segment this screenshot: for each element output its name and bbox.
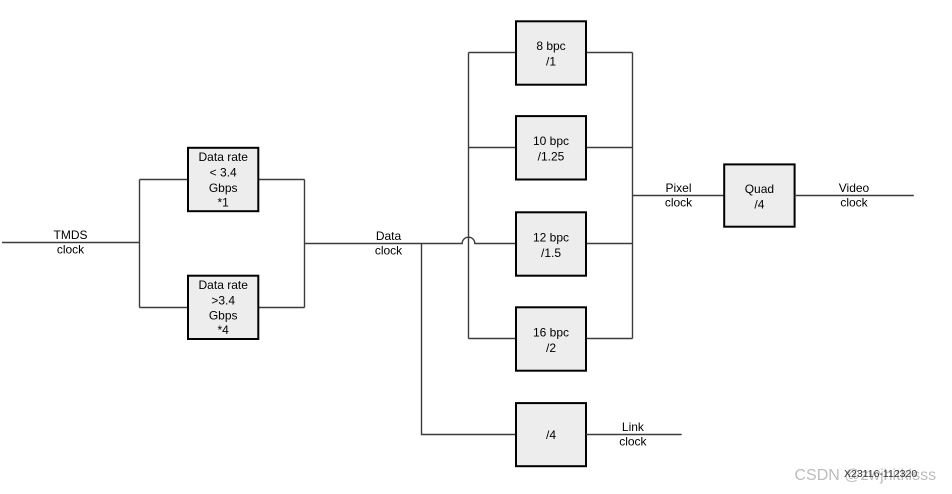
- svg-text:Video: Video: [839, 181, 870, 195]
- wire drop to /4 divider: [422, 244, 517, 435]
- wire data clock main with hop over bpc vertical: [305, 237, 517, 243]
- svg-text:8 bpc: 8 bpc: [536, 39, 565, 53]
- wire stub to 10bpc left: [469, 147, 517, 149]
- box /4 link divider: [516, 403, 586, 466]
- svg-text:clock: clock: [57, 242, 85, 256]
- box Data rate > 3.4 Gbps *4: [188, 276, 258, 339]
- svg-text:Data rate: Data rate: [199, 278, 249, 292]
- svg-text:16 bpc: 16 bpc: [533, 325, 569, 339]
- wire stub from 8bpc right: [586, 52, 633, 54]
- wire stub to R1 box left: [140, 179, 189, 181]
- wire bpc branch left vertical: [468, 53, 470, 339]
- svg-text:*1: *1: [218, 195, 230, 209]
- wire left branch right vertical: [304, 180, 306, 308]
- box Quad /4: [724, 164, 794, 226]
- svg-text:/1: /1: [546, 55, 556, 69]
- box Data rate < 3.4 Gbps *1: [188, 148, 258, 211]
- svg-text:>3.4: >3.4: [211, 293, 235, 307]
- wire stub from 16bpc right: [586, 338, 633, 340]
- svg-text:/1.25: /1.25: [538, 150, 565, 164]
- svg-text:clock: clock: [375, 243, 403, 257]
- svg-text:Quad: Quad: [745, 182, 774, 196]
- node Pixel clock label: [665, 181, 693, 210]
- svg-text:TMDS: TMDS: [54, 228, 88, 242]
- svg-text:X23116-112320: X23116-112320: [844, 468, 917, 480]
- svg-text:clock: clock: [840, 195, 868, 209]
- wire pixel clock: [633, 195, 725, 197]
- wire stub from 10bpc right: [586, 147, 633, 149]
- svg-text:Data: Data: [376, 229, 402, 243]
- node Video clock label: [839, 181, 870, 210]
- svg-text:12 bpc: 12 bpc: [533, 230, 569, 244]
- box 10 bpc /1.25: [516, 116, 586, 179]
- svg-text:Data rate: Data rate: [199, 150, 249, 164]
- wire stub from 12bpc right: [586, 243, 633, 245]
- wire stub from R1 box right: [258, 179, 304, 181]
- svg-text:Gbps: Gbps: [209, 181, 238, 195]
- svg-text:Link: Link: [622, 420, 645, 434]
- wire TMDS input: [2, 242, 140, 244]
- svg-text:/4: /4: [546, 428, 556, 442]
- svg-text:/4: /4: [754, 198, 764, 212]
- node TMDS clock label: [54, 228, 88, 256]
- svg-text:clock: clock: [619, 434, 647, 448]
- svg-text:/1.5: /1.5: [541, 246, 561, 260]
- box 12 bpc /1.5: [516, 212, 586, 275]
- wire video clock: [795, 195, 914, 197]
- wire stub to R2 box left: [140, 307, 189, 309]
- wire link clock: [586, 434, 682, 436]
- wire stub to 8bpc left: [469, 52, 517, 54]
- svg-text:Pixel: Pixel: [665, 181, 691, 195]
- wire left branch left vertical: [139, 180, 141, 308]
- svg-text:/2: /2: [546, 341, 556, 355]
- wire stub from R2 box right: [258, 307, 304, 309]
- box 8 bpc /1: [516, 21, 586, 84]
- svg-text:clock: clock: [665, 195, 693, 209]
- svg-text:*4: *4: [218, 323, 230, 337]
- svg-text:< 3.4: < 3.4: [210, 165, 237, 179]
- wire bpc branch right vertical: [632, 53, 634, 339]
- svg-text:10 bpc: 10 bpc: [533, 134, 569, 148]
- svg-text:Gbps: Gbps: [209, 309, 238, 323]
- node Data clock label: [375, 229, 403, 257]
- node Link clock label: [619, 420, 647, 449]
- box 16 bpc /2: [516, 307, 586, 370]
- wire stub to 16bpc left: [469, 338, 517, 340]
